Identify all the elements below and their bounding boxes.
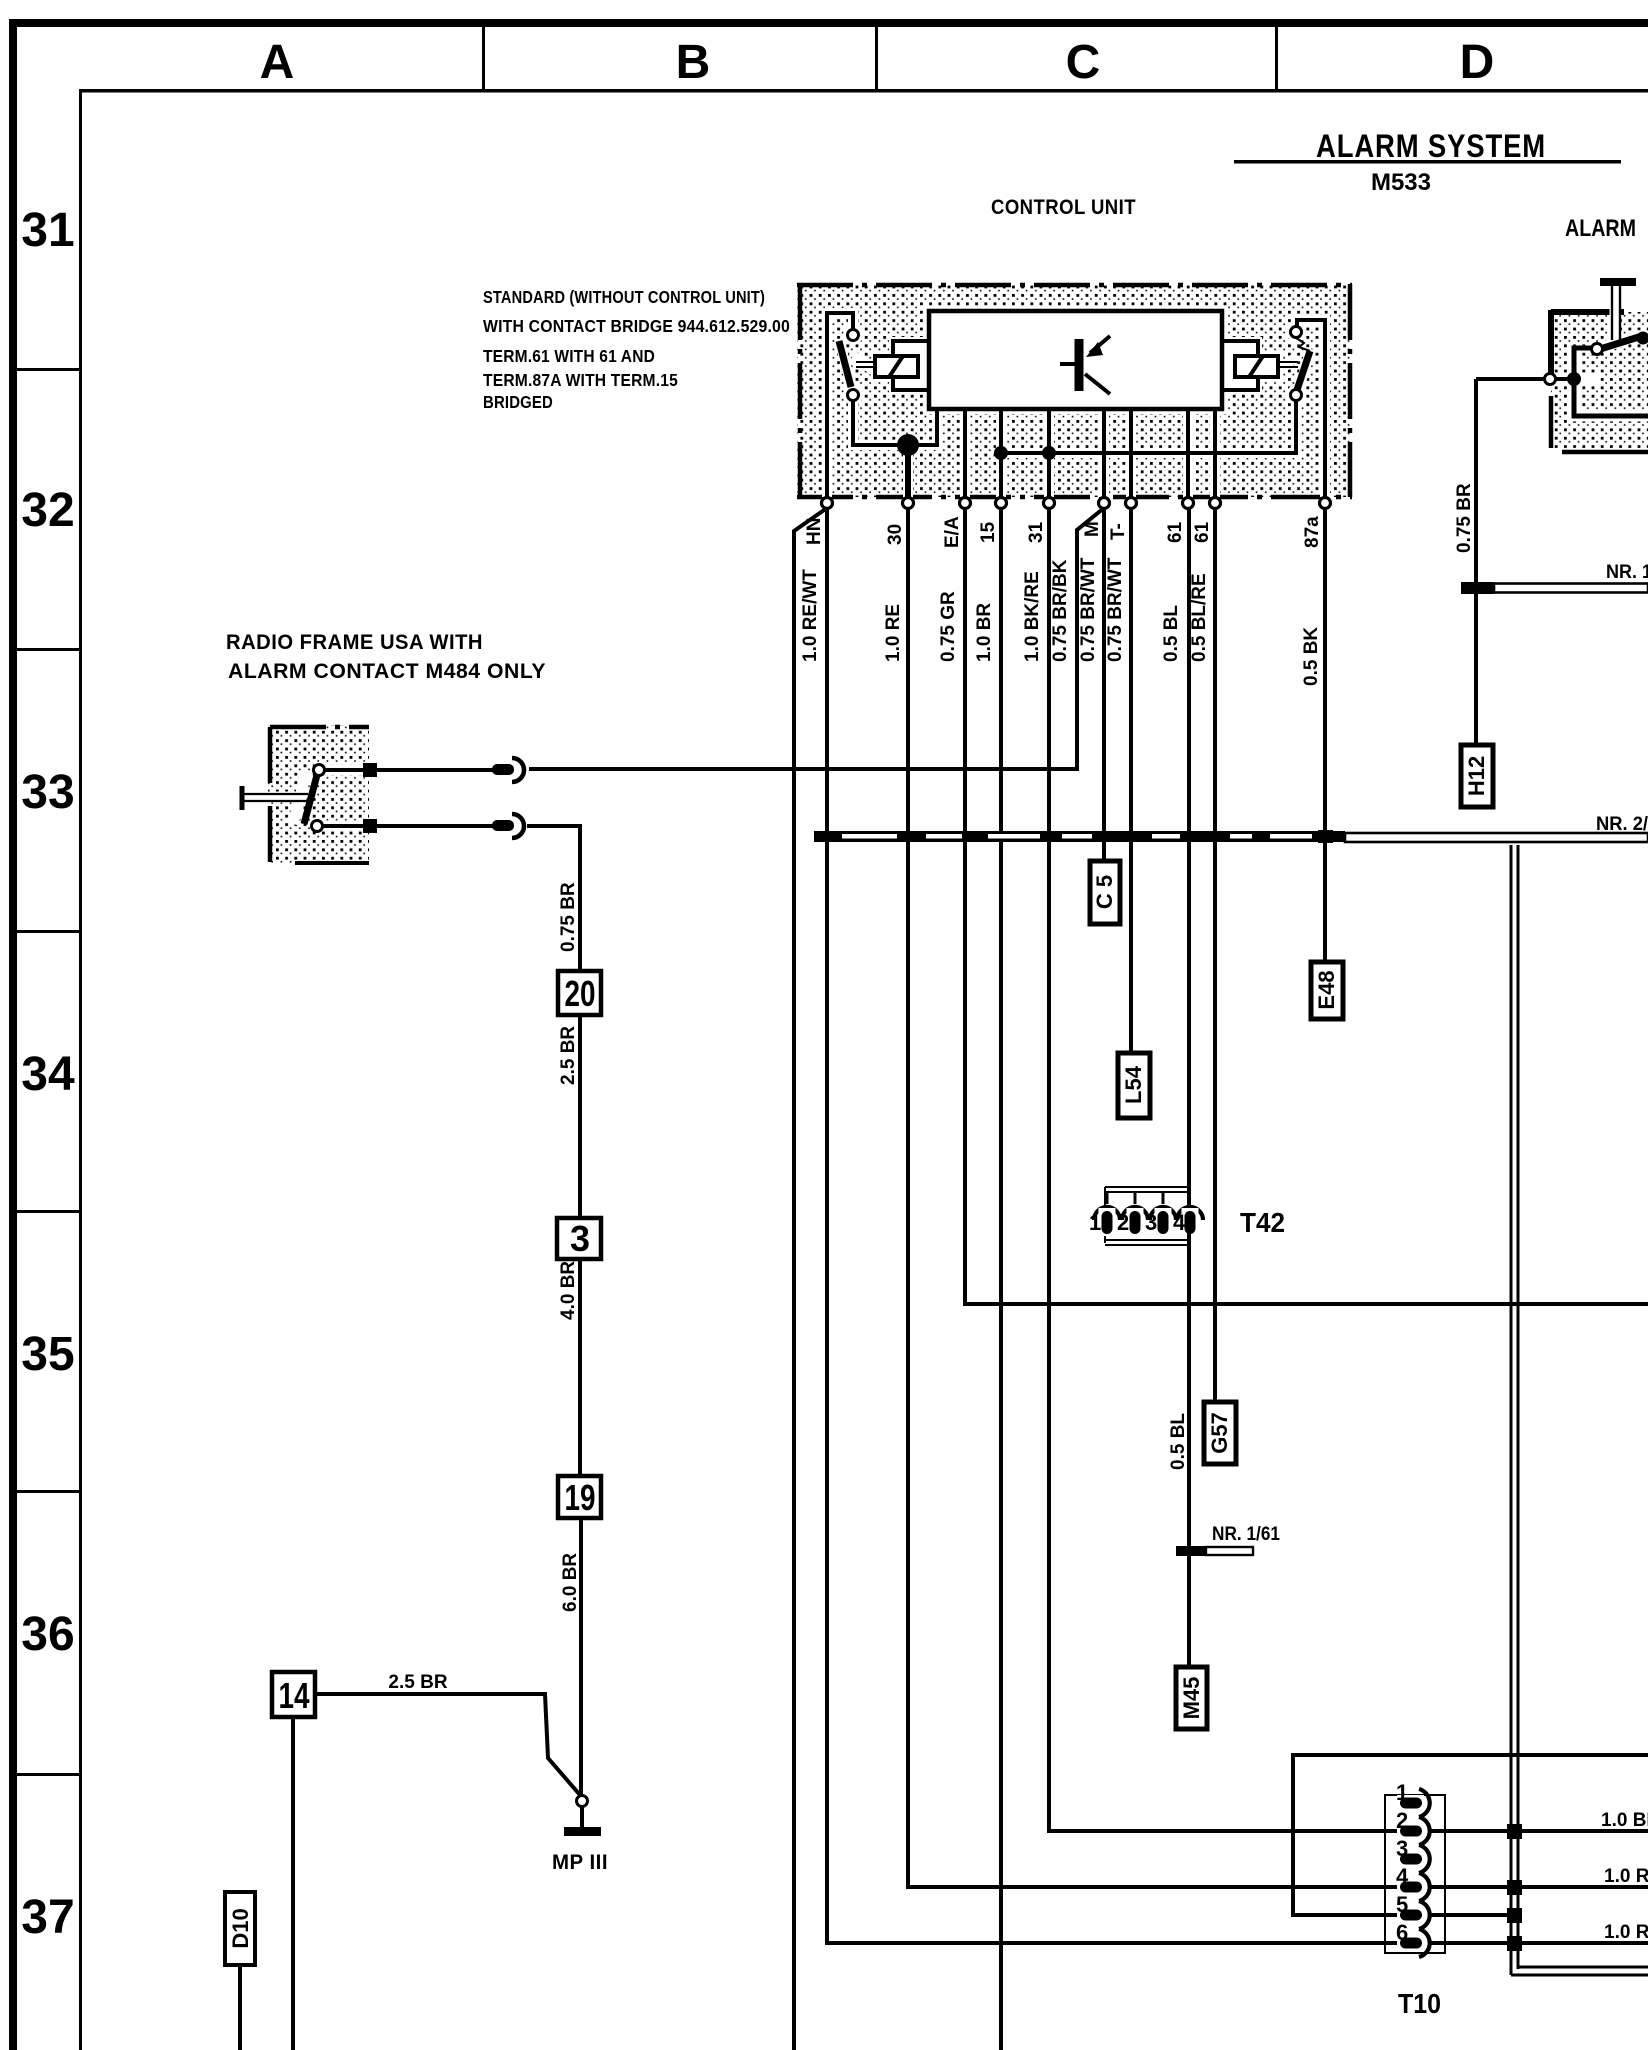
svg-text:ALARM CONTACT M484 ONLY: ALARM CONTACT M484 ONLY bbox=[228, 660, 546, 683]
svg-text:4: 4 bbox=[1173, 1210, 1186, 1235]
connector L54 bbox=[1118, 1053, 1150, 1118]
svg-text:2.5 BR: 2.5 BR bbox=[388, 1672, 447, 1693]
junction bridge at wire 15 bbox=[994, 446, 1008, 460]
svg-text:3: 3 bbox=[1145, 1210, 1157, 1235]
relay K2 bottom contact bbox=[1291, 390, 1302, 401]
connector box 19 bbox=[558, 1476, 601, 1518]
junction pin5 row bbox=[1507, 1908, 1522, 1923]
relay K1 mech link bbox=[856, 361, 876, 363]
CONTROL UNIT BOX bbox=[797, 284, 1352, 548]
connector G57 bbox=[1204, 1402, 1236, 1464]
relay K2 hook bbox=[1296, 338, 1310, 351]
svg-text:1.0 RE: 1.0 RE bbox=[1604, 1866, 1648, 1887]
svg-text:0.75 BR/BK: 0.75 BR/BK bbox=[1050, 559, 1071, 662]
svg-text:0.5 BL/RE: 0.5 BL/RE bbox=[1189, 573, 1210, 662]
alarm switch left border dashdot bbox=[1549, 396, 1554, 448]
module pin lead 31 bbox=[1047, 409, 1051, 497]
svg-text:2.5 BR: 2.5 BR bbox=[558, 1026, 579, 1085]
title underline bbox=[1234, 160, 1621, 164]
terminal 15 bbox=[996, 498, 1007, 509]
wire K1 contact to module pin bbox=[853, 400, 937, 445]
svg-text:20: 20 bbox=[565, 973, 596, 1014]
terminal 61a bbox=[1183, 498, 1194, 509]
svg-text:30: 30 bbox=[885, 524, 906, 545]
svg-text:0.75 BR/WT: 0.75 BR/WT bbox=[1078, 557, 1099, 662]
alarm switch top border bbox=[1551, 309, 1624, 315]
wire 87a terminal to relay K2 top contact bbox=[1297, 320, 1325, 497]
svg-text:TERM.61 WITH 61 AND: TERM.61 WITH 61 AND bbox=[483, 346, 655, 366]
BOTTOM RIGHT BOX AND T10 bbox=[1293, 845, 1648, 2019]
connector box 20 bbox=[558, 971, 601, 1015]
wire 0.5 BL/RE 61 to G57 bbox=[1213, 508, 1217, 1402]
control unit dash-dot border top bbox=[797, 283, 1352, 288]
T42 pin 1 bbox=[1094, 1207, 1120, 1220]
svg-text:0.75 GR: 0.75 GR bbox=[938, 591, 959, 662]
relay K2 top contact bbox=[1291, 327, 1302, 338]
row band right line bbox=[79, 89, 82, 2050]
bus NR.2 white stripes bbox=[842, 834, 1312, 839]
big unit box left double border bbox=[1510, 845, 1513, 1975]
connector T10 plate bbox=[1385, 1795, 1445, 1953]
relay K2 coil slash bbox=[1249, 356, 1263, 377]
svg-text:19: 19 bbox=[565, 1477, 596, 1518]
WIRES BELOW CONTROL UNIT bbox=[529, 508, 1648, 2050]
connector T42 plate bbox=[1105, 1187, 1191, 1245]
junction 87a wire on NR.2 bbox=[1318, 830, 1333, 843]
wire right of pin 4 bbox=[1431, 1885, 1648, 1889]
wire below D10 bbox=[238, 1965, 242, 2050]
relay K1 coil slash bbox=[889, 356, 903, 377]
inner module white margin bbox=[923, 306, 1228, 414]
svg-text:D10: D10 bbox=[228, 1908, 253, 1948]
terminal 30 bbox=[903, 498, 914, 509]
relay K2 coil bracket bbox=[1222, 341, 1258, 390]
svg-text:37: 37 bbox=[21, 1891, 74, 1944]
wire 2.5 BR bbox=[578, 1015, 582, 1218]
svg-text:4.0 BR: 4.0 BR bbox=[558, 1261, 579, 1320]
wire T42 pin4 down to M45 bbox=[1187, 1231, 1191, 1667]
module pin lead 61b2 bbox=[1213, 409, 1217, 497]
bus NR.2 double line right bbox=[1345, 833, 1648, 842]
svg-text:ALARM: ALARM bbox=[1565, 215, 1636, 242]
white halo wires inside control unit bbox=[827, 313, 1325, 497]
wire right of pin 2 bbox=[1431, 1829, 1648, 1833]
T10 pin 1 bbox=[1397, 1795, 1424, 1811]
svg-text:RADIO FRAME USA WITH: RADIO FRAME USA WITH bbox=[226, 631, 483, 654]
relay K1 coil bracket bbox=[893, 341, 929, 390]
row separators bbox=[17, 368, 80, 1776]
svg-text:36: 36 bbox=[21, 1608, 74, 1661]
terminal M bbox=[1099, 498, 1110, 509]
svg-text:WITH CONTACT BRIDGE 944.612.52: WITH CONTACT BRIDGE 944.612.529.00 bbox=[483, 316, 790, 336]
big unit box bottom double border bbox=[1511, 1974, 1648, 1977]
radio switch left border bbox=[268, 727, 273, 863]
header divider C|D bbox=[1275, 27, 1278, 91]
TITLES bbox=[226, 128, 1636, 683]
lamp E48 bbox=[1311, 962, 1343, 1019]
radio switch stipple bbox=[268, 725, 369, 865]
control unit dash-dot border right bbox=[1348, 284, 1353, 497]
terminal 87a bbox=[1320, 498, 1331, 509]
wire 0.75 BR down to NR1 bbox=[1474, 379, 1478, 745]
svg-text:0.75 BR: 0.75 BR bbox=[558, 882, 579, 952]
bus NR.1/61 hollow bar bbox=[1206, 1547, 1253, 1555]
svg-text:1: 1 bbox=[1089, 1210, 1101, 1235]
radio switch upper terminal pad bbox=[363, 763, 377, 777]
svg-text:3: 3 bbox=[570, 1218, 590, 1259]
wire lower connector to ground chain bbox=[527, 826, 580, 971]
T42 pin 2 bbox=[1122, 1207, 1148, 1220]
T10 pin 4 bbox=[1397, 1879, 1424, 1895]
svg-text:0.5 BL: 0.5 BL bbox=[1168, 1413, 1189, 1470]
svg-text:4: 4 bbox=[1396, 1864, 1409, 1889]
T10 pin 6 bbox=[1397, 1935, 1424, 1951]
header divider B|C bbox=[875, 27, 878, 91]
junction bridge at wire 31 bbox=[1042, 446, 1056, 460]
radio switch upper contact bbox=[314, 765, 325, 776]
svg-text:0.75 BR: 0.75 BR bbox=[1454, 483, 1475, 553]
alarm switch lever pivot bbox=[1637, 332, 1648, 345]
svg-text:87a: 87a bbox=[1302, 516, 1323, 548]
wire K2 contact to bridge rail bbox=[1000, 400, 1296, 453]
control unit dash-dot border bottom bbox=[797, 495, 1352, 500]
relay K1 lever bbox=[839, 341, 851, 387]
svg-text:1.0 BR: 1.0 BR bbox=[1601, 1810, 1648, 1831]
bus NR.1 hollow bar bbox=[1494, 584, 1648, 593]
alarm switch contact circle bbox=[1592, 344, 1603, 355]
wire loop T10 pin 5 bbox=[1293, 1755, 1648, 1915]
svg-text:B: B bbox=[676, 36, 711, 89]
wire 1.0 RE/WT diagonal branch bbox=[794, 508, 827, 2050]
wire 2.5 BR from box 14 bbox=[315, 1694, 580, 1795]
bus NR.2 main bar bbox=[814, 831, 1345, 842]
relay K1 bottom contact bbox=[848, 390, 859, 401]
alarm switch left border solid bbox=[1548, 310, 1554, 377]
svg-text:G57: G57 bbox=[1207, 1412, 1232, 1454]
svg-text:C 5: C 5 bbox=[1092, 875, 1117, 909]
svg-text:TERM.87A WITH TERM.15: TERM.87A WITH TERM.15 bbox=[483, 370, 678, 390]
svg-text:M533: M533 bbox=[1371, 169, 1431, 196]
motor M45 bbox=[1176, 1667, 1207, 1729]
outer top border bbox=[9, 19, 1648, 27]
svg-text:NR. 2/: NR. 2/ bbox=[1596, 814, 1648, 835]
wire 6.0 BR bbox=[579, 1518, 583, 1797]
alarm switch contact path bbox=[1574, 348, 1648, 416]
svg-text:14: 14 bbox=[279, 1675, 310, 1716]
junction pin6 row bbox=[1507, 1936, 1522, 1951]
bus NR.1/61 solid bar bbox=[1176, 1546, 1206, 1556]
svg-text:BRIDGED: BRIDGED bbox=[483, 392, 553, 412]
svg-text:H12: H12 bbox=[1464, 756, 1489, 796]
relay K1 coil white pocket bbox=[871, 352, 922, 381]
svg-text:2: 2 bbox=[1117, 1210, 1129, 1235]
svg-text:1.0 BK/RE: 1.0 BK/RE bbox=[1022, 571, 1043, 662]
svg-text:1: 1 bbox=[1396, 1780, 1408, 1805]
relay K2 coil bbox=[1235, 356, 1278, 377]
alarm switch lever bbox=[1597, 336, 1642, 350]
T10 pin 2 bbox=[1397, 1823, 1424, 1839]
module pin lead 61a bbox=[1186, 409, 1190, 497]
control unit stipple background bbox=[797, 284, 1352, 497]
wire 0.75 BR/WT M to C5 bbox=[1102, 508, 1106, 861]
radio switch plunger T bbox=[242, 786, 308, 810]
wire 1.0 BR to page bottom bbox=[999, 508, 1003, 2050]
module pin lead E/A bbox=[963, 409, 967, 497]
terminal 61b bbox=[1210, 498, 1221, 509]
bus NR.1 solid bar bbox=[1461, 582, 1494, 594]
white halos in radio switch bbox=[246, 770, 369, 826]
wire HN terminal to relay K1 top contact bbox=[827, 313, 853, 497]
wire right of pin 6 bbox=[1431, 1941, 1648, 1945]
connector D10 bbox=[225, 1892, 255, 1965]
module pin lead T- bbox=[1129, 409, 1133, 497]
radio switch lower terminal pad bbox=[363, 819, 377, 833]
svg-text:2: 2 bbox=[1396, 1808, 1408, 1833]
svg-text:L54: L54 bbox=[1121, 1065, 1146, 1104]
radio switch lower terminal stub bbox=[323, 824, 366, 828]
thyristor symbol in module bbox=[1060, 336, 1110, 394]
svg-text:3: 3 bbox=[1396, 1836, 1408, 1861]
wire 4.0 BR bbox=[578, 1259, 582, 1476]
svg-text:NR. 1: NR. 1 bbox=[1606, 562, 1648, 583]
svg-text:32: 32 bbox=[21, 484, 74, 537]
radio switch lever bbox=[304, 775, 317, 824]
relay K1 coil bbox=[875, 356, 918, 377]
connector box 3 bbox=[557, 1218, 601, 1259]
svg-text:31: 31 bbox=[1026, 521, 1047, 543]
relay K2 coil white pocket bbox=[1231, 352, 1282, 381]
radio switch upper terminal stub bbox=[325, 768, 366, 772]
radio switch top border bbox=[270, 725, 369, 730]
svg-text:31: 31 bbox=[21, 204, 74, 257]
svg-text:6.0 BR: 6.0 BR bbox=[560, 1553, 581, 1612]
svg-text:0.5 BL: 0.5 BL bbox=[1161, 605, 1182, 662]
wire below box 14 bbox=[291, 1717, 295, 2050]
svg-text:1.0 RE/WT: 1.0 RE/WT bbox=[800, 569, 821, 662]
svg-text:NR. 1/61: NR. 1/61 bbox=[1212, 1524, 1280, 1545]
box wall pass circle bbox=[1545, 374, 1556, 385]
radio switch bottom border bbox=[295, 861, 369, 865]
svg-text:0.5 BK: 0.5 BK bbox=[1301, 627, 1322, 686]
control unit dash-dot border left bbox=[798, 284, 803, 497]
svg-text:CONTROL UNIT: CONTROL UNIT bbox=[991, 196, 1136, 219]
alarm switch stipple bbox=[1551, 312, 1648, 448]
inner module box bbox=[929, 311, 1222, 409]
wire 0.5 BL 61 to T42 pin 4 bbox=[1187, 508, 1191, 1207]
wire 0.5 BK 87a to NR2 bus and E48 bbox=[1323, 508, 1327, 962]
svg-text:6: 6 bbox=[1396, 1920, 1408, 1945]
NR2 BUS bbox=[814, 814, 1648, 1019]
connector C5 bbox=[1090, 861, 1120, 924]
svg-text:E/A: E/A bbox=[942, 516, 963, 548]
svg-text:STANDARD (WITHOUT CONTROL UNIT: STANDARD (WITHOUT CONTROL UNIT) bbox=[483, 287, 765, 307]
svg-text:61: 61 bbox=[1192, 521, 1213, 543]
svg-text:T42: T42 bbox=[1240, 1207, 1285, 1238]
svg-text:E48: E48 bbox=[1314, 970, 1339, 1009]
junction on alarm feed bbox=[1567, 372, 1581, 386]
terminal HN bbox=[822, 498, 833, 509]
terminal E/A bbox=[960, 498, 971, 509]
wire upper pad to connector bbox=[377, 768, 494, 772]
svg-text:A: A bbox=[260, 36, 295, 89]
relay K2 lever bbox=[1297, 351, 1310, 390]
connector pin upper bbox=[492, 764, 514, 775]
T42 pin stubs bbox=[1107, 1192, 1163, 1204]
terminal T- bbox=[1126, 498, 1137, 509]
svg-text:5: 5 bbox=[1396, 1892, 1408, 1917]
svg-text:0.75 BR/WT: 0.75 BR/WT bbox=[1105, 557, 1126, 662]
header divider A|B bbox=[482, 27, 485, 91]
junction pin4 row bbox=[1507, 1880, 1522, 1895]
note STANDARD block bbox=[483, 287, 790, 412]
antenna T symbol bbox=[1600, 278, 1636, 286]
RIGHT TOP: ALARM SWITCH bbox=[1454, 278, 1648, 807]
white halos in alarm box bbox=[1551, 285, 1648, 416]
radio switch lower contact bbox=[312, 821, 323, 832]
white halo relay contacts bbox=[843, 325, 863, 345]
ground MP III bbox=[580, 1806, 584, 1828]
T10 pin 3 bbox=[1397, 1851, 1424, 1867]
wire 1.0 RE to T10 pin 4 bbox=[908, 508, 1400, 1887]
outer left border bbox=[9, 19, 17, 2050]
module pin lead M bbox=[1102, 409, 1106, 497]
svg-text:1.0 RE: 1.0 RE bbox=[883, 604, 904, 662]
svg-text:T-: T- bbox=[1108, 523, 1129, 540]
wire junction to terminal 30 bbox=[905, 445, 911, 497]
T42 pin 4 bbox=[1177, 1207, 1203, 1220]
svg-text:61: 61 bbox=[1165, 521, 1186, 543]
lamp H12 bbox=[1461, 745, 1493, 807]
junction pin2 row bbox=[1507, 1824, 1522, 1839]
wire through box wall bbox=[1476, 377, 1574, 381]
connector box 14 bbox=[272, 1672, 315, 1717]
svg-text:15: 15 bbox=[978, 521, 999, 543]
svg-text:T10: T10 bbox=[1398, 1988, 1441, 2019]
svg-text:C: C bbox=[1066, 36, 1101, 89]
wire right of pin 5 bbox=[1431, 1913, 1511, 1917]
junction on wire to terminal 30 bbox=[897, 434, 919, 456]
module pin lead 15 bbox=[999, 409, 1003, 497]
svg-text:M45: M45 bbox=[1179, 1677, 1204, 1720]
note RADIO FRAME block bbox=[226, 631, 546, 683]
svg-text:34: 34 bbox=[21, 1048, 75, 1101]
svg-text:ALARM SYSTEM: ALARM SYSTEM bbox=[1316, 128, 1546, 164]
T10 pin 5 bbox=[1397, 1907, 1424, 1923]
RADIO FRAME SWITCH bbox=[225, 725, 608, 2050]
ground node circle bbox=[577, 1796, 588, 1807]
svg-text:MP III: MP III bbox=[552, 1851, 608, 1874]
terminal 31 bbox=[1044, 498, 1055, 509]
MIDDLE COMPONENTS bbox=[1089, 861, 1285, 1729]
T42 pin 3 bbox=[1150, 1207, 1176, 1220]
wire 0.75 BR/BK from M diagonal to radio contact bbox=[529, 508, 1104, 769]
wire 0.75 GR to long horizontal bbox=[965, 508, 1648, 1304]
wire 0.75 BR/WT T- to L54 bbox=[1129, 508, 1133, 1053]
alarm switch bottom border bbox=[1562, 450, 1648, 455]
svg-text:35: 35 bbox=[21, 1328, 74, 1381]
wire 1.0 BK/RE to T10 pin 2 bbox=[1049, 508, 1400, 1831]
wire lower pad to connector bbox=[377, 824, 494, 828]
wire 1.0 RE/WT straight to T10 pin 6 bbox=[827, 508, 1400, 1943]
header bottom line bbox=[79, 89, 1648, 93]
svg-text:1.0 RE: 1.0 RE bbox=[1604, 1922, 1648, 1943]
connector pin lower bbox=[492, 820, 514, 831]
relay K2 mech link bbox=[1278, 361, 1298, 363]
svg-text:33: 33 bbox=[21, 766, 74, 819]
relay K1 top contact bbox=[848, 330, 859, 341]
svg-text:D: D bbox=[1460, 36, 1495, 89]
svg-text:1.0 BR: 1.0 BR bbox=[974, 603, 995, 662]
